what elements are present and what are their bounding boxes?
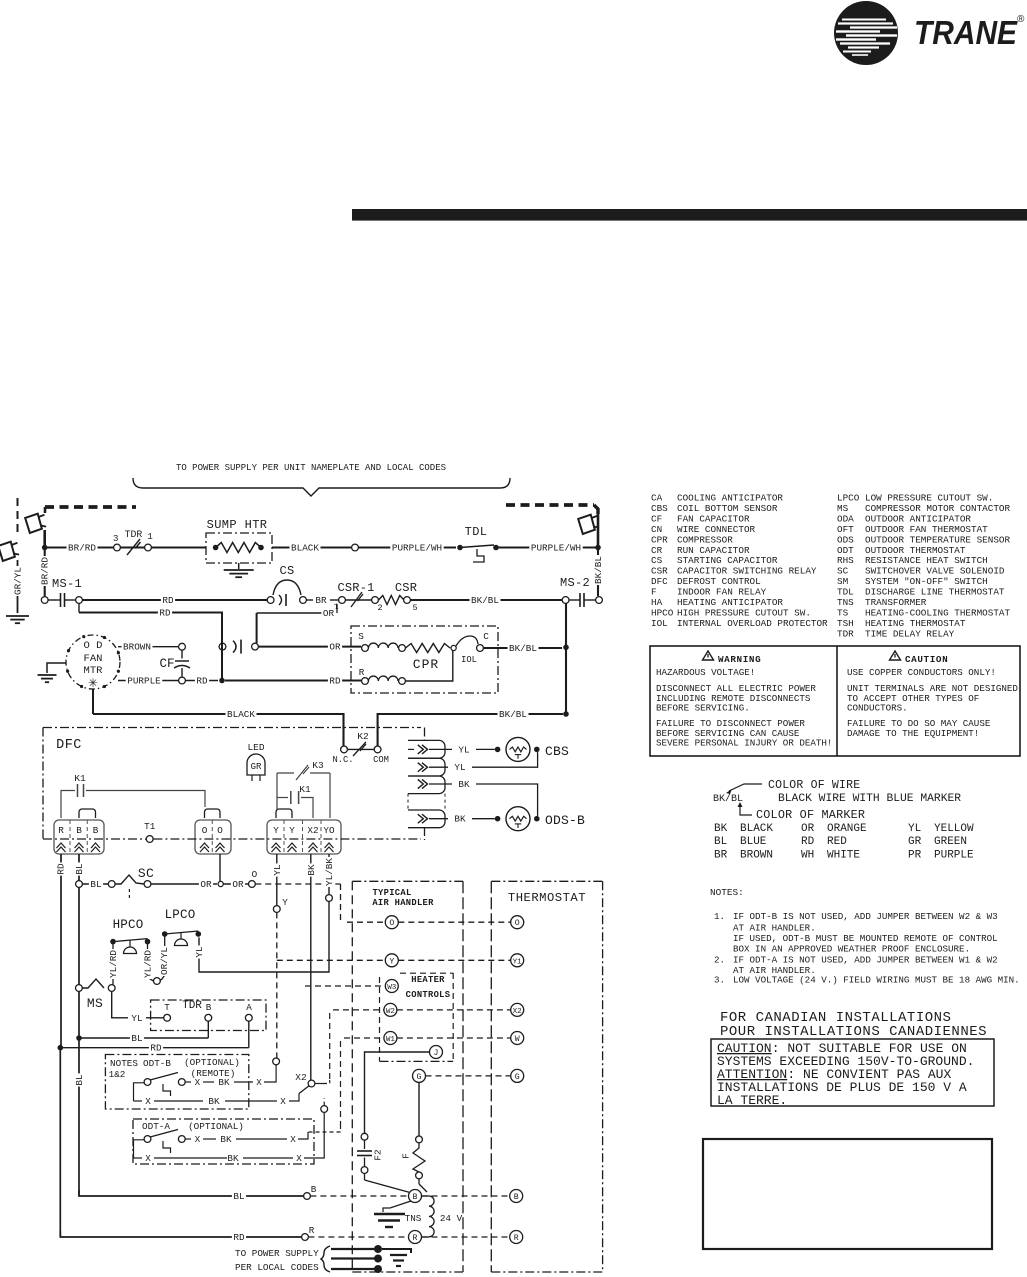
svg-text:COMPRESSOR: COMPRESSOR — [677, 534, 733, 545]
svg-text:RD: RD — [55, 863, 66, 875]
svg-text:BK: BK — [714, 823, 728, 835]
svg-text:LPCO: LPCO — [165, 908, 196, 922]
svg-text:ODA: ODA — [837, 513, 854, 524]
svg-text:CBS: CBS — [545, 744, 569, 759]
svg-text:DEFROST CONTROL: DEFROST CONTROL — [677, 576, 761, 587]
svg-text:TIME DELAY RELAY: TIME DELAY RELAY — [865, 628, 955, 639]
svg-text:R: R — [413, 1234, 418, 1243]
svg-text:3.: 3. — [714, 975, 725, 986]
svg-text:USE COPPER CONDUCTORS ONLY!: USE COPPER CONDUCTORS ONLY! — [847, 667, 996, 678]
svg-text:YL: YL — [454, 762, 465, 773]
svg-text:B: B — [311, 1184, 317, 1195]
svg-text:Y: Y — [273, 825, 279, 836]
svg-text:ODS: ODS — [837, 534, 854, 545]
svg-text:YL/BK: YL/BK — [324, 858, 335, 886]
svg-text:GR: GR — [908, 836, 922, 848]
svg-text:K3: K3 — [312, 760, 324, 771]
svg-text:SWITCHOVER VALVE SOLENOID: SWITCHOVER VALVE SOLENOID — [865, 566, 1005, 577]
svg-text:Y1: Y1 — [513, 958, 523, 966]
svg-text:TNS: TNS — [837, 597, 854, 608]
svg-text:G: G — [515, 1073, 520, 1082]
svg-text:BK: BK — [454, 814, 466, 825]
svg-text:CAUTION: CAUTION — [905, 654, 948, 665]
svg-text:TDR: TDR — [182, 1000, 202, 1012]
svg-text:BLACK: BLACK — [227, 709, 255, 720]
svg-text:T: T — [164, 1002, 170, 1013]
svg-text:CSR: CSR — [395, 581, 417, 595]
svg-text:O: O — [202, 825, 208, 836]
svg-text:RD: RD — [329, 675, 341, 686]
svg-text:SC: SC — [138, 866, 154, 881]
svg-text:OUTDOOR ANTICIPATOR: OUTDOOR ANTICIPATOR — [865, 513, 971, 524]
svg-text:O: O — [217, 825, 223, 836]
svg-text:DISCHARGE LINE THERMOSTAT: DISCHARGE LINE THERMOSTAT — [865, 587, 1005, 598]
svg-text:BL: BL — [90, 879, 101, 890]
svg-text:MS: MS — [837, 503, 849, 514]
svg-text:TSH: TSH — [837, 618, 854, 629]
svg-text:CS: CS — [651, 555, 663, 566]
svg-text:TDR: TDR — [837, 628, 854, 639]
svg-text:DAMAGE TO THE EQUIPMENT!: DAMAGE TO THE EQUIPMENT! — [847, 728, 979, 739]
svg-text:BR: BR — [315, 595, 327, 606]
svg-text:W: W — [515, 1035, 520, 1044]
svg-text:PURPLE/WH: PURPLE/WH — [531, 542, 581, 553]
svg-text:BLUE: BLUE — [740, 836, 767, 848]
svg-text:BK/BL: BK/BL — [593, 556, 604, 584]
svg-text:OR/YL: OR/YL — [159, 947, 170, 975]
svg-text:C: C — [483, 631, 489, 642]
svg-text:BLACK WIRE WITH BLUE MARKER: BLACK WIRE WITH BLUE MARKER — [778, 793, 961, 805]
svg-text:BL: BL — [74, 863, 85, 874]
svg-text:BROWN: BROWN — [740, 849, 773, 861]
svg-text:BK/BL: BK/BL — [509, 643, 537, 654]
svg-text:T1: T1 — [144, 821, 156, 832]
svg-text:BK: BK — [458, 779, 470, 790]
svg-text:HEATER: HEATER — [411, 975, 445, 985]
svg-text:TYPICAL: TYPICAL — [372, 888, 411, 898]
svg-text:YL: YL — [194, 946, 205, 957]
svg-text:X: X — [145, 1153, 151, 1164]
svg-text:OR: OR — [323, 608, 335, 619]
svg-text:RD: RD — [162, 595, 174, 606]
svg-text:TRANSFORMER: TRANSFORMER — [865, 597, 927, 608]
svg-text:YELLOW: YELLOW — [934, 823, 974, 835]
svg-text:OFT: OFT — [837, 524, 854, 535]
svg-text:TS: TS — [837, 607, 849, 618]
svg-text:OR: OR — [232, 879, 244, 890]
svg-text:RD: RD — [196, 675, 208, 686]
svg-text:INTERNAL OVERLOAD PROTECTOR: INTERNAL OVERLOAD PROTECTOR — [677, 618, 828, 629]
svg-text:ORANGE: ORANGE — [827, 823, 867, 835]
svg-text:CR: CR — [651, 545, 663, 556]
svg-text:BEFORE SERVICING.: BEFORE SERVICING. — [656, 703, 750, 714]
svg-text:SUMP HTR: SUMP HTR — [207, 518, 268, 532]
svg-text:COOLING ANTICIPATOR: COOLING ANTICIPATOR — [677, 493, 783, 504]
svg-text:R: R — [309, 1225, 315, 1236]
svg-text:ODT-A: ODT-A — [142, 1121, 170, 1132]
svg-text:ODT-B: ODT-B — [143, 1058, 171, 1069]
svg-text:X: X — [195, 1077, 201, 1088]
svg-text:SC: SC — [837, 566, 849, 577]
svg-text:COLOR OF MARKER: COLOR OF MARKER — [756, 808, 865, 822]
svg-text:BK: BK — [218, 1077, 230, 1088]
svg-text:BL: BL — [714, 836, 727, 848]
svg-text:BR/RD: BR/RD — [68, 542, 96, 553]
svg-text:PURPLE: PURPLE — [127, 675, 161, 686]
svg-text:(OPTIONAL): (OPTIONAL) — [188, 1121, 244, 1132]
svg-text:BL: BL — [233, 1191, 244, 1202]
svg-text:X2: X2 — [513, 1008, 523, 1016]
svg-text:2.: 2. — [714, 955, 725, 966]
svg-text:RD: RD — [150, 1043, 162, 1054]
svg-text:AT AIR HANDLER.: AT AIR HANDLER. — [733, 923, 816, 934]
svg-text:THERMOSTAT: THERMOSTAT — [508, 891, 586, 905]
svg-text:Y: Y — [289, 825, 295, 836]
svg-text:TRANE: TRANE — [914, 14, 1018, 51]
svg-text:WH: WH — [801, 849, 814, 861]
svg-text:RESISTANCE HEAT SWITCH: RESISTANCE HEAT SWITCH — [865, 555, 988, 566]
svg-text:FAN: FAN — [84, 653, 103, 665]
svg-text:W3: W3 — [387, 984, 397, 992]
svg-text:WHITE: WHITE — [827, 849, 860, 861]
svg-text:K1: K1 — [74, 773, 86, 784]
svg-text:NOTES: NOTES — [110, 1058, 138, 1069]
svg-text:MS-1: MS-1 — [52, 577, 82, 591]
svg-text:BLACK: BLACK — [740, 823, 773, 835]
svg-text:R: R — [514, 1234, 519, 1243]
svg-text:YL/RD: YL/RD — [108, 950, 119, 978]
svg-text:PURPLE: PURPLE — [934, 849, 974, 861]
svg-text:HEATING-COOLING THERMOSTAT: HEATING-COOLING THERMOSTAT — [865, 607, 1010, 618]
svg-text:B: B — [514, 1193, 519, 1202]
svg-text:MTR: MTR — [84, 665, 104, 677]
svg-text:IF USED, ODT-B MUST BE MOUNTED: IF USED, ODT-B MUST BE MOUNTED REMOTE OF… — [733, 933, 998, 944]
svg-text:CPR: CPR — [413, 657, 439, 672]
svg-text:CSR: CSR — [651, 566, 668, 577]
svg-text:Y: Y — [282, 897, 288, 908]
svg-text:TO POWER SUPPLY PER UNIT NAMEP: TO POWER SUPPLY PER UNIT NAMEPLATE AND L… — [176, 463, 446, 473]
svg-text:HEATING ANTICIPATOR: HEATING ANTICIPATOR — [677, 597, 783, 608]
svg-text:O D: O D — [84, 640, 103, 652]
svg-text:OUTDOOR THERMOSTAT: OUTDOOR THERMOSTAT — [865, 545, 966, 556]
svg-text:BK: BK — [208, 1096, 220, 1107]
svg-text:BOX IN AN APPROVED WEATHER PRO: BOX IN AN APPROVED WEATHER PROOF ENCLOSU… — [733, 944, 970, 955]
svg-text:HPCO: HPCO — [113, 918, 144, 932]
svg-text:B: B — [413, 1193, 418, 1202]
svg-text:CSR-1: CSR-1 — [337, 581, 374, 595]
svg-text:COIL BOTTOM SENSOR: COIL BOTTOM SENSOR — [677, 503, 778, 514]
svg-text:IF ODT-B IS NOT USED, ADD JUMP: IF ODT-B IS NOT USED, ADD JUMPER BETWEEN… — [733, 911, 998, 922]
svg-text:CF: CF — [651, 513, 662, 524]
svg-text:IF ODT-A IS NOT USED, ADD JUMP: IF ODT-A IS NOT USED, ADD JUMPER BETWEEN… — [733, 955, 998, 966]
svg-text:HIGH PRESSURE CUTOUT SW.: HIGH PRESSURE CUTOUT SW. — [677, 607, 811, 618]
svg-text:OR: OR — [200, 879, 212, 890]
svg-text:PER LOCAL CODES: PER LOCAL CODES — [235, 1262, 319, 1273]
svg-text:K1: K1 — [299, 784, 311, 795]
svg-text:IOL: IOL — [461, 655, 477, 665]
svg-text:F2: F2 — [372, 1149, 383, 1160]
svg-text:TO POWER SUPPLY: TO POWER SUPPLY — [235, 1248, 319, 1259]
svg-text:YL: YL — [131, 1013, 142, 1024]
svg-text:WIRE CONNECTOR: WIRE CONNECTOR — [677, 524, 756, 535]
svg-text:YL/RD: YL/RD — [142, 950, 153, 978]
svg-text:CN: CN — [651, 524, 662, 535]
svg-text:✳: ✳ — [88, 677, 98, 691]
svg-text:LOW PRESSURE CUTOUT SW.: LOW PRESSURE CUTOUT SW. — [865, 493, 993, 504]
svg-text:X: X — [280, 1096, 286, 1107]
svg-text:RHS: RHS — [837, 555, 854, 566]
svg-text:X2: X2 — [307, 825, 318, 836]
svg-text:N.C.: N.C. — [332, 755, 353, 765]
svg-text:TDR: TDR — [125, 529, 143, 540]
svg-text:STARTING CAPACITOR: STARTING CAPACITOR — [677, 555, 778, 566]
svg-text:OUTDOOR TEMPERATURE SENSOR: OUTDOOR TEMPERATURE SENSOR — [865, 534, 1010, 545]
svg-text:YL: YL — [272, 864, 283, 875]
svg-text:RUN CAPACITOR: RUN CAPACITOR — [677, 545, 750, 556]
svg-text:(OPTIONAL): (OPTIONAL) — [184, 1057, 240, 1068]
svg-text:F: F — [651, 587, 657, 598]
svg-text:COMPRESSOR MOTOR CONTACTOR: COMPRESSOR MOTOR CONTACTOR — [865, 503, 1010, 514]
svg-text:INDOOR FAN RELAY: INDOOR FAN RELAY — [677, 587, 767, 598]
svg-text:3: 3 — [113, 533, 119, 544]
svg-text:ODT: ODT — [837, 545, 854, 556]
svg-text:O: O — [515, 919, 520, 928]
svg-text:TDL: TDL — [465, 525, 488, 539]
svg-text:DFC: DFC — [56, 738, 82, 753]
svg-text:B: B — [206, 1002, 212, 1013]
svg-text:HAZARDOUS VOLTAGE!: HAZARDOUS VOLTAGE! — [656, 667, 755, 678]
svg-text:LOW VOLTAGE (24 V.) FIELD WIRI: LOW VOLTAGE (24 V.) FIELD WIRING MUST BE… — [733, 975, 1020, 986]
svg-text:BK/BL: BK/BL — [471, 595, 499, 606]
svg-text:CF: CF — [159, 657, 174, 671]
svg-text:SYSTEM "ON-OFF" SWITCH: SYSTEM "ON-OFF" SWITCH — [865, 576, 988, 587]
svg-text:B: B — [93, 825, 99, 836]
svg-text:IOL: IOL — [651, 618, 668, 629]
svg-text:RD: RD — [159, 607, 171, 618]
svg-text:OUTDOOR FAN THERMOSTAT: OUTDOOR FAN THERMOSTAT — [865, 524, 988, 535]
svg-text:TNS: TNS — [405, 1213, 422, 1224]
svg-text:GR: GR — [251, 762, 262, 772]
svg-text:SM: SM — [837, 576, 848, 587]
svg-text:PR: PR — [908, 849, 922, 861]
svg-text:A: A — [246, 1002, 252, 1013]
svg-text:5: 5 — [412, 603, 417, 613]
svg-text:1&2: 1&2 — [109, 1069, 126, 1080]
svg-text:X: X — [290, 1134, 296, 1145]
svg-text:1: 1 — [147, 531, 153, 542]
svg-text:BLACK: BLACK — [291, 542, 319, 553]
svg-text:K2: K2 — [357, 731, 369, 742]
svg-text:BK/BL: BK/BL — [499, 709, 527, 720]
svg-text:Y: Y — [389, 957, 394, 966]
svg-text:CPR: CPR — [651, 534, 668, 545]
svg-text:1.: 1. — [714, 911, 725, 922]
svg-text:R: R — [58, 825, 64, 836]
svg-text:COLOR OF WIRE: COLOR OF WIRE — [768, 779, 860, 792]
svg-text:X: X — [145, 1096, 151, 1107]
svg-text:LED: LED — [247, 742, 264, 753]
svg-text:OR: OR — [801, 823, 815, 835]
svg-text:DFC: DFC — [651, 576, 668, 587]
svg-text:2: 2 — [377, 603, 382, 613]
svg-text:X: X — [296, 1153, 302, 1164]
svg-text:BL: BL — [131, 1033, 142, 1044]
svg-text:O: O — [389, 919, 394, 928]
svg-text:BR/RD: BR/RD — [40, 557, 51, 585]
svg-text:RD: RD — [233, 1232, 245, 1243]
svg-text:COM: COM — [373, 755, 389, 765]
svg-text:LA TERRE.: LA TERRE. — [717, 1093, 787, 1108]
svg-text:BK/BL: BK/BL — [713, 793, 743, 805]
svg-text:BROWN: BROWN — [123, 642, 151, 653]
svg-text:YL: YL — [458, 744, 469, 755]
svg-text:G: G — [417, 1073, 422, 1082]
svg-text:W2: W2 — [386, 1008, 396, 1016]
svg-text:CS: CS — [279, 564, 294, 578]
svg-text:MS: MS — [87, 996, 103, 1011]
svg-text:LPCO: LPCO — [837, 493, 860, 504]
svg-text:BK: BK — [220, 1134, 232, 1145]
svg-text:X2: X2 — [295, 1072, 307, 1083]
svg-text:GR/YL: GR/YL — [12, 567, 23, 595]
svg-text:MS-2: MS-2 — [560, 576, 590, 590]
svg-text:POUR INSTALLATIONS CANADIENNES: POUR INSTALLATIONS CANADIENNES — [720, 1024, 987, 1040]
svg-text:YL: YL — [908, 823, 921, 835]
svg-text:CA: CA — [651, 493, 663, 504]
svg-text:BR: BR — [714, 849, 728, 861]
svg-text:X: X — [195, 1134, 201, 1145]
svg-text:HA: HA — [651, 597, 663, 608]
svg-text:HEATING THERMOSTAT: HEATING THERMOSTAT — [865, 618, 966, 629]
svg-text:S: S — [358, 631, 364, 642]
svg-text:NOTES:: NOTES: — [710, 887, 744, 898]
svg-text:HPCO: HPCO — [651, 607, 674, 618]
svg-text:X: X — [256, 1077, 262, 1088]
svg-text:YO: YO — [323, 825, 335, 836]
svg-text:CONTROLS: CONTROLS — [406, 990, 451, 1000]
svg-text:B: B — [76, 825, 82, 836]
svg-text:FAN CAPACITOR: FAN CAPACITOR — [677, 513, 750, 524]
svg-text:TDL: TDL — [837, 587, 854, 598]
svg-text:PURPLE/WH: PURPLE/WH — [392, 542, 442, 553]
svg-text:RD: RD — [801, 836, 815, 848]
svg-text:O: O — [252, 869, 258, 880]
svg-text:SEVERE PERSONAL INJURY OR DEAT: SEVERE PERSONAL INJURY OR DEATH! — [656, 738, 832, 749]
svg-text:CONDUCTORS.: CONDUCTORS. — [847, 703, 908, 714]
svg-text:24 V: 24 V — [440, 1213, 463, 1224]
svg-text:®: ® — [1017, 14, 1025, 25]
svg-text:J: J — [434, 1049, 439, 1058]
svg-text:CBS: CBS — [651, 503, 668, 514]
svg-text:BK: BK — [227, 1153, 239, 1164]
svg-text:R: R — [359, 667, 365, 678]
svg-text:ODS-B: ODS-B — [545, 813, 585, 828]
svg-text:BK: BK — [306, 864, 317, 876]
svg-text:AIR HANDLER: AIR HANDLER — [372, 898, 434, 908]
svg-text:F: F — [400, 1153, 411, 1159]
svg-text:RED: RED — [827, 836, 847, 848]
svg-text:WARNING: WARNING — [718, 654, 761, 665]
svg-text:GREEN: GREEN — [934, 836, 967, 848]
svg-text:W1: W1 — [386, 1036, 396, 1044]
svg-text:CAPACITOR SWITCHING RELAY: CAPACITOR SWITCHING RELAY — [677, 566, 817, 577]
svg-text:BL: BL — [74, 1074, 85, 1085]
svg-text:OR: OR — [329, 642, 341, 653]
